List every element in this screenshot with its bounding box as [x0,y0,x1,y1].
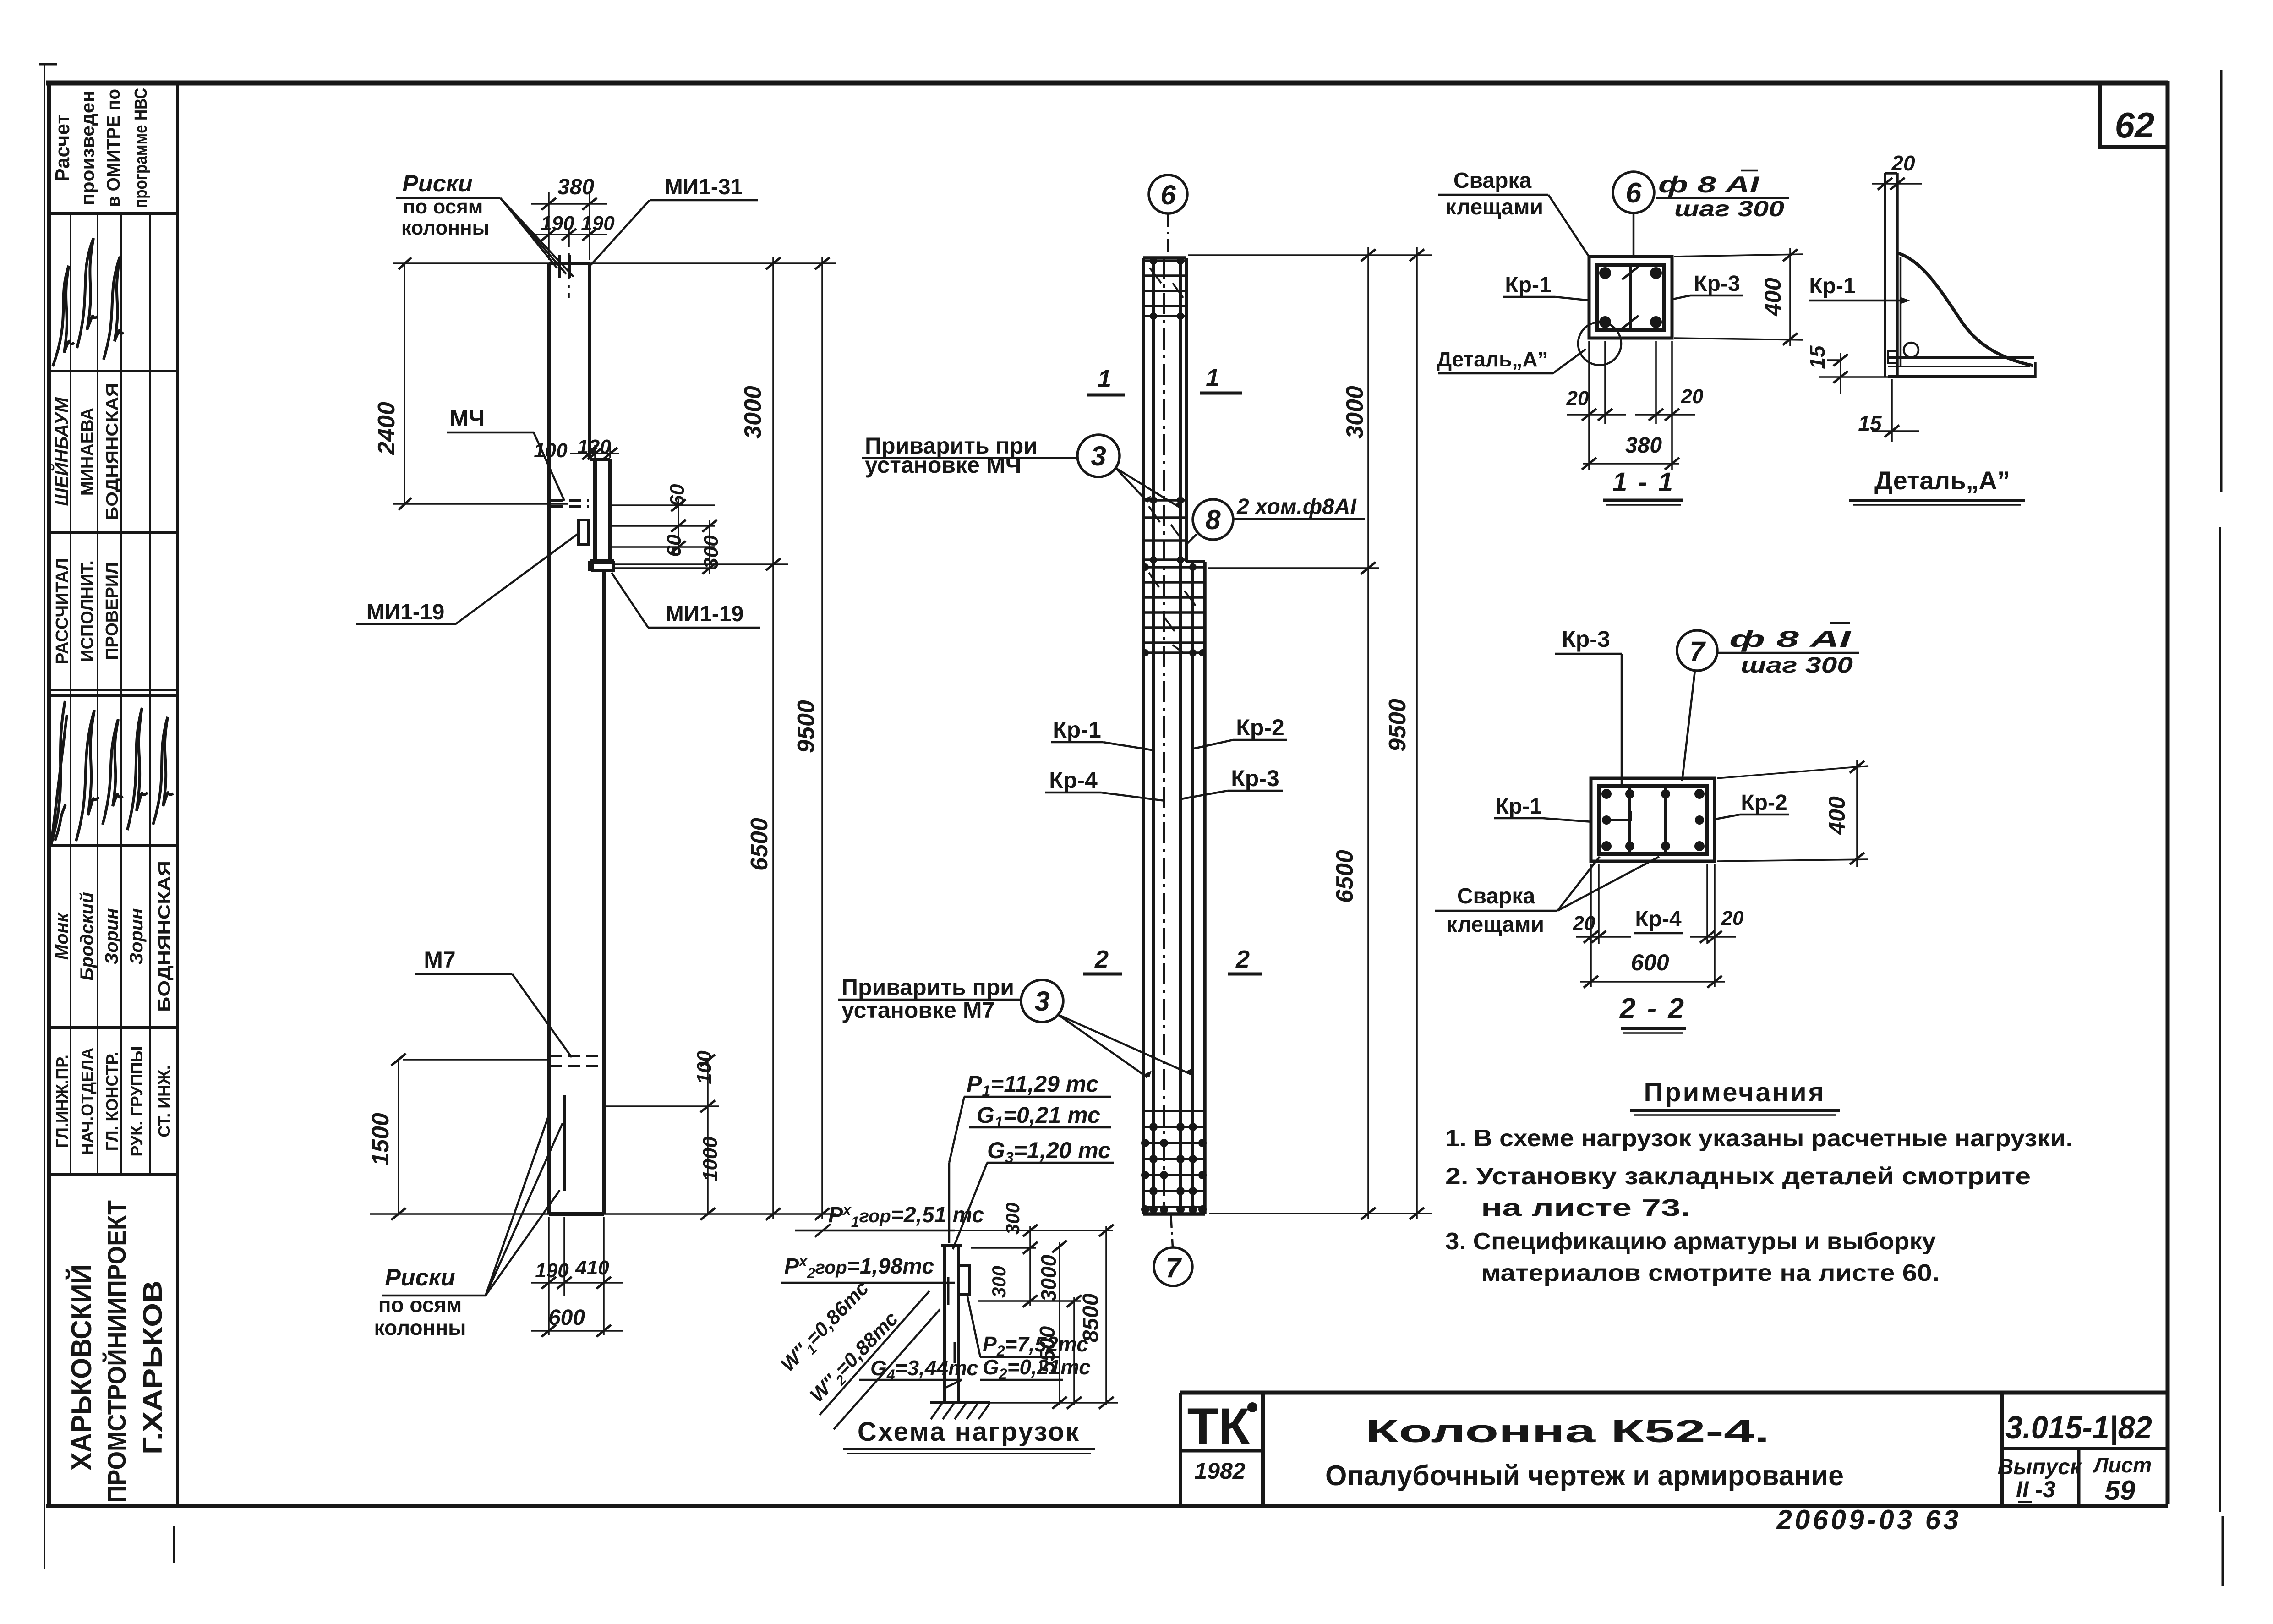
svg-text:15: 15 [1858,411,1882,435]
svg-text:Деталь„А”: Деталь„А” [1874,466,2010,495]
svg-text:Зорин: Зорин [102,908,122,964]
svg-text:ф 8 АI: ф 8 АI [1729,626,1852,652]
svg-text:ХАРЬКОВСКИЙ: ХАРЬКОВСКИЙ [66,1264,98,1471]
svg-text:190: 190 [541,212,574,235]
svg-text:шаг 300: шаг 300 [1741,653,1853,678]
svg-text:Сварка: Сварка [1457,884,1535,908]
svg-text:3: 3 [1091,441,1106,471]
svg-text:3: 3 [1034,986,1049,1017]
svg-text:600: 600 [548,1306,585,1330]
svg-text:1: 1 [1098,365,1111,393]
svg-text:300: 300 [1002,1203,1023,1235]
svg-text:программе НВС: программе НВС [131,88,151,208]
svg-text:МИ1-31: МИ1-31 [665,175,743,199]
svg-text:Примечания: Примечания [1644,1077,1826,1107]
svg-text:колонны: колонны [374,1316,466,1340]
svg-text:II -3: II -3 [2016,1476,2055,1502]
svg-text:РАССЧИТАЛ: РАССЧИТАЛ [53,558,72,664]
svg-text:ГЛ. КОНСТР.: ГЛ. КОНСТР. [103,1052,121,1151]
svg-text:Опалубочный чертеж и армиров: Опалубочный чертеж и армирование [1325,1460,1844,1492]
svg-text:1000: 1000 [699,1137,721,1181]
svg-text:шаг 300: шаг 300 [1674,197,1784,221]
svg-text:ШЕЙНБАУМ: ШЕЙНБАУМ [50,397,72,506]
svg-text:Кр-1: Кр-1 [1053,717,1101,743]
svg-text:Колонна К52-4.: Колонна К52-4. [1365,1413,1770,1449]
svg-text:G4=3,44тс: G4=3,44тс [870,1356,978,1383]
svg-text:8500: 8500 [1079,1293,1103,1342]
svg-text:6: 6 [1626,177,1642,209]
svg-text:380: 380 [1625,433,1662,458]
svg-text:120: 120 [577,436,611,458]
svg-text:100: 100 [693,1050,716,1084]
svg-text:Риски: Риски [385,1264,455,1291]
svg-text:20: 20 [1681,385,1704,408]
svg-text:2400: 2400 [373,402,400,455]
svg-text:8: 8 [1205,504,1221,535]
svg-text:1 - 1: 1 - 1 [1612,467,1675,497]
svg-text:60: 60 [663,534,685,557]
svg-text:20: 20 [1891,151,1915,175]
svg-text:59: 59 [2105,1475,2136,1506]
svg-text:6500: 6500 [1332,850,1358,903]
svg-text:МИ1-19: МИ1-19 [366,600,445,624]
svg-text:20: 20 [1573,912,1595,935]
svg-text:6: 6 [1160,180,1176,210]
svg-text:БОДНЯНСКАЯ: БОДНЯНСКАЯ [155,861,174,1012]
svg-text:6500: 6500 [746,818,773,871]
svg-text:Кр-3: Кр-3 [1231,766,1279,791]
svg-text:ф 8 АI: ф 8 АI [1658,172,1760,197]
svg-text:Бродский: Бродский [77,892,97,980]
svg-text:15: 15 [1805,345,1829,369]
svg-text:3000: 3000 [1342,386,1368,439]
svg-text:Зорин: Зорин [126,908,147,964]
svg-text:ПРОВЕРИЛ: ПРОВЕРИЛ [103,562,122,660]
svg-text:Кр-1: Кр-1 [1809,274,1855,298]
svg-text:1. В схеме нагрузок указаны ра: 1. В схеме нагрузок указаны расчетные на… [1445,1125,2073,1152]
svg-text:установке М7: установке М7 [841,997,994,1023]
svg-text:190: 190 [581,212,615,235]
svg-text:М7: М7 [424,947,455,973]
svg-text:РУК. ГРУППЫ: РУК. ГРУППЫ [127,1046,146,1156]
svg-text:3.015-1|82: 3.015-1|82 [2005,1410,2152,1445]
svg-text:20: 20 [1566,387,1589,410]
svg-text:установке МЧ: установке МЧ [865,452,1022,478]
svg-text:20: 20 [1721,907,1744,930]
svg-text:Px2гор=1,98тс: Px2гор=1,98тс [784,1253,934,1281]
svg-text:ТК: ТК [1187,1398,1250,1455]
svg-text:Монк: Монк [52,912,72,960]
svg-text:380: 380 [557,175,594,199]
svg-text:Приварить при: Приварить при [841,974,1014,1000]
svg-text:2: 2 [1235,946,1250,973]
svg-text:7: 7 [1165,1252,1182,1283]
svg-text:на листе 73.: на листе 73. [1481,1195,1690,1221]
svg-text:МЧ: МЧ [450,405,485,431]
svg-text:МИНАЕВА: МИНАЕВА [78,408,97,496]
svg-text:материалов смотрите на лист: материалов смотрите на листе 60. [1481,1260,1940,1286]
svg-text:Кр-4: Кр-4 [1049,767,1098,793]
svg-text:Кр-1: Кр-1 [1495,794,1541,819]
svg-text:колонны: колонны [401,217,489,239]
svg-text:2: 2 [1094,946,1109,973]
svg-text:100: 100 [534,439,568,462]
svg-text:в ОМИТРЕ по: в ОМИТРЕ по [104,89,124,207]
svg-text:60: 60 [666,484,688,506]
svg-text:клещами: клещами [1445,195,1543,219]
svg-text:1982: 1982 [1194,1458,1245,1484]
svg-text:3000: 3000 [1037,1254,1060,1301]
svg-text:Лист: Лист [2093,1453,2152,1477]
svg-text:9500: 9500 [793,700,820,753]
svg-text:300: 300 [700,535,722,569]
svg-text:5500: 5500 [1035,1326,1059,1373]
svg-text:Схема нагрузок: Схема нагрузок [858,1417,1080,1447]
svg-text:2 - 2: 2 - 2 [1619,993,1686,1024]
svg-text:9500: 9500 [1384,699,1411,752]
svg-text:ИСПОЛНИТ.: ИСПОЛНИТ. [78,560,97,662]
svg-text:Кр-3: Кр-3 [1694,272,1740,296]
svg-text:ГЛ.ИНЖ.ПР.: ГЛ.ИНЖ.ПР. [53,1055,71,1148]
svg-text:ПРОМСТРОЙНИИПРОЕКТ: ПРОМСТРОЙНИИПРОЕКТ [102,1200,131,1503]
svg-text:по осям: по осям [403,196,483,218]
svg-text:НАЧ.ОТДЕЛА: НАЧ.ОТДЕЛА [78,1048,97,1155]
svg-text:Кр-1: Кр-1 [1505,273,1551,297]
svg-text:БОДНЯНСКАЯ: БОДНЯНСКАЯ [103,383,121,520]
svg-text:Г.ХАРЬКОВ: Г.ХАРЬКОВ [138,1280,168,1454]
svg-text:произведен: произведен [78,91,98,205]
svg-text:Кр-2: Кр-2 [1236,715,1284,740]
svg-text:400: 400 [1760,278,1786,317]
svg-text:7: 7 [1689,636,1706,667]
svg-text:1500: 1500 [367,1113,394,1166]
svg-text:20609-03 63: 20609-03 63 [1776,1504,1962,1535]
svg-text:Кр-3: Кр-3 [1562,626,1610,652]
svg-text:3000: 3000 [740,386,766,439]
svg-text:62: 62 [2115,105,2155,145]
svg-text:Расчет: Расчет [51,114,74,182]
svg-text:600: 600 [1631,950,1669,975]
svg-text:МИ1-19: МИ1-19 [666,602,744,626]
svg-text:1: 1 [1206,364,1219,392]
svg-text:Кр-2: Кр-2 [1741,791,1787,815]
svg-text:190: 190 [535,1259,569,1282]
svg-text:400: 400 [1824,796,1850,835]
svg-text:СТ. ИНЖ.: СТ. ИНЖ. [155,1065,174,1137]
svg-text:Выпуск: Выпуск [1998,1455,2082,1479]
svg-text:Риски: Риски [402,170,473,197]
svg-text:клещами: клещами [1446,913,1544,937]
svg-text:300: 300 [988,1266,1010,1298]
svg-text:Кр-4: Кр-4 [1635,907,1682,931]
svg-text:Сварка: Сварка [1453,169,1532,193]
svg-text:2. Установку закладных детале: 2. Установку закладных деталей смотрите [1445,1163,2031,1190]
svg-text:2 хом.ф8АI: 2 хом.ф8АI [1236,495,1357,519]
svg-text:410: 410 [575,1257,609,1279]
svg-text:по осям: по осям [378,1293,462,1317]
svg-text:Деталь„А”: Деталь„А” [1437,347,1548,371]
svg-text:3. Спецификацию арматуры и: 3. Спецификацию арматуры и выборку [1445,1228,1936,1255]
